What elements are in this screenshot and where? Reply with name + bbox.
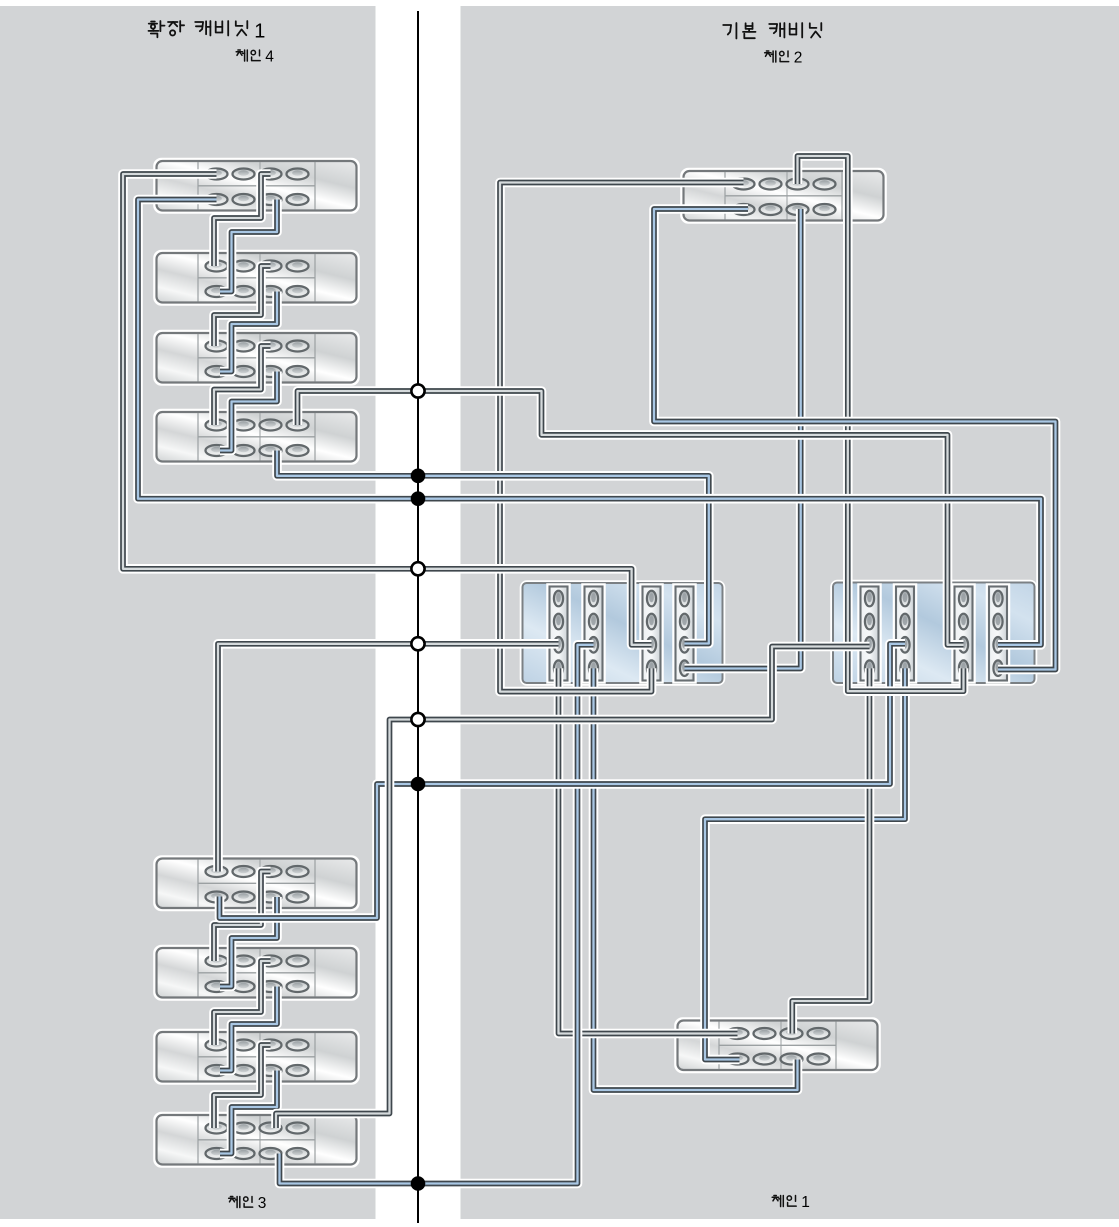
wire zigzag blue link 6	[220, 1071, 277, 1154]
wire ctrl1.hba2.p4 to shelfBR.iomB.p3	[594, 668, 798, 1090]
wire shelfTR.iomB.p3 to ctrl1.hba4.p4	[685, 209, 801, 669]
filled junction circle y=784	[411, 777, 426, 792]
expansion cabinet 1 panel	[0, 6, 376, 1219]
wire zigzag blue link 4	[220, 897, 277, 987]
open junction circle y=719.5	[411, 713, 424, 726]
base cabinet panel	[461, 6, 1119, 1219]
wire zigzag blue link 2	[220, 292, 277, 372]
wire zigzag dark link 4	[214, 872, 271, 962]
disk shelf S7 (chain3)	[155, 1030, 359, 1084]
wire S5.iomA.p1 to ctrl1.hba1.p3	[218, 644, 559, 872]
wire S8.iomA.p3 to ctrl2.hba1.p3	[276, 647, 870, 1129]
wire zigzag dark link 2	[214, 266, 271, 346]
disk shelf BR (chain1)	[676, 1019, 880, 1073]
svg-text:1: 1	[254, 21, 265, 43]
wire shelfTR.iomA.p1 to ctrl1.hba3.p4	[500, 183, 744, 692]
controller 1	[521, 582, 724, 685]
wire S4.iomB.p3 to ctrl1.hba4.p3	[277, 451, 709, 644]
svg-text:1: 1	[801, 1194, 810, 1211]
wire S5.iomB.p1 to ctrl2.hba2.p3	[220, 644, 906, 918]
disk shelf S6 (chain3)	[155, 946, 359, 1000]
disk shelf S2 (chain4)	[155, 251, 359, 305]
disk shelf S8 (chain3)	[155, 1113, 359, 1167]
label: chain 4	[236, 50, 260, 61]
wire zigzag blue link 3	[220, 372, 277, 451]
svg-text:4: 4	[265, 49, 274, 66]
open junction circle y=643.8	[411, 637, 424, 650]
title: expansion cabinet 1	[149, 21, 248, 37]
title: base cabinet	[723, 23, 821, 39]
controller 2	[832, 581, 1037, 685]
wire ctrl2.hba2.p4 to shelfBR.iomB.p1	[705, 668, 905, 1059]
filled junction circle y=1183.5	[411, 1176, 426, 1191]
wire S1.iomB.p1 to ctrl2.hba4.p3	[138, 200, 1041, 645]
filled junction circle y=498.7	[411, 491, 426, 506]
disk shelf S4 (chain4)	[155, 410, 359, 464]
wire S4.iomA.p4 to ctrl2.hba3.p3	[298, 391, 964, 645]
disk shelf S3 (chain4)	[155, 331, 359, 385]
wire zigzag dark link 1	[214, 174, 271, 266]
wire ctrl1.hba1.p4 to shelfBR.iomA.p1	[559, 668, 738, 1033]
label: chain 3	[229, 1197, 253, 1208]
wire S8.iomB.p3 to ctrl1.hba2.p3	[280, 645, 594, 1184]
wire zigzag dark link 6	[214, 1045, 271, 1128]
disk shelf S1 (chain4)	[155, 159, 359, 213]
open junction circle y=391	[411, 384, 424, 397]
wire zigzag blue link 5	[220, 987, 277, 1071]
svg-text:2: 2	[794, 50, 803, 67]
wire ctrl2.hba1.p4 to shelfBR.iomA.p3	[792, 668, 869, 1033]
cabinet boundary line	[417, 11, 419, 1223]
label: chain 2	[765, 51, 789, 62]
wire zigzag dark link 5	[214, 961, 271, 1045]
wire shelfTR.iomA.p3 to ctrl2.hba3.p4	[798, 156, 964, 691]
filled junction circle y=475.8	[411, 469, 426, 484]
disk shelf TR (chain2)	[682, 169, 886, 223]
label: chain 1	[772, 1196, 796, 1207]
wire zigzag blue link 1	[220, 200, 277, 292]
svg-text:3: 3	[258, 1195, 267, 1212]
disk shelf S5 (chain3)	[155, 857, 359, 911]
wire S1.iomA.p1 to ctrl1.hba3.p3	[123, 174, 652, 645]
wire zigzag dark link 3	[214, 346, 271, 425]
open junction circle y=568.8	[411, 562, 424, 575]
wire shelfTR.iomB.p1 to ctrl2.hba4.p4	[654, 209, 1056, 670]
